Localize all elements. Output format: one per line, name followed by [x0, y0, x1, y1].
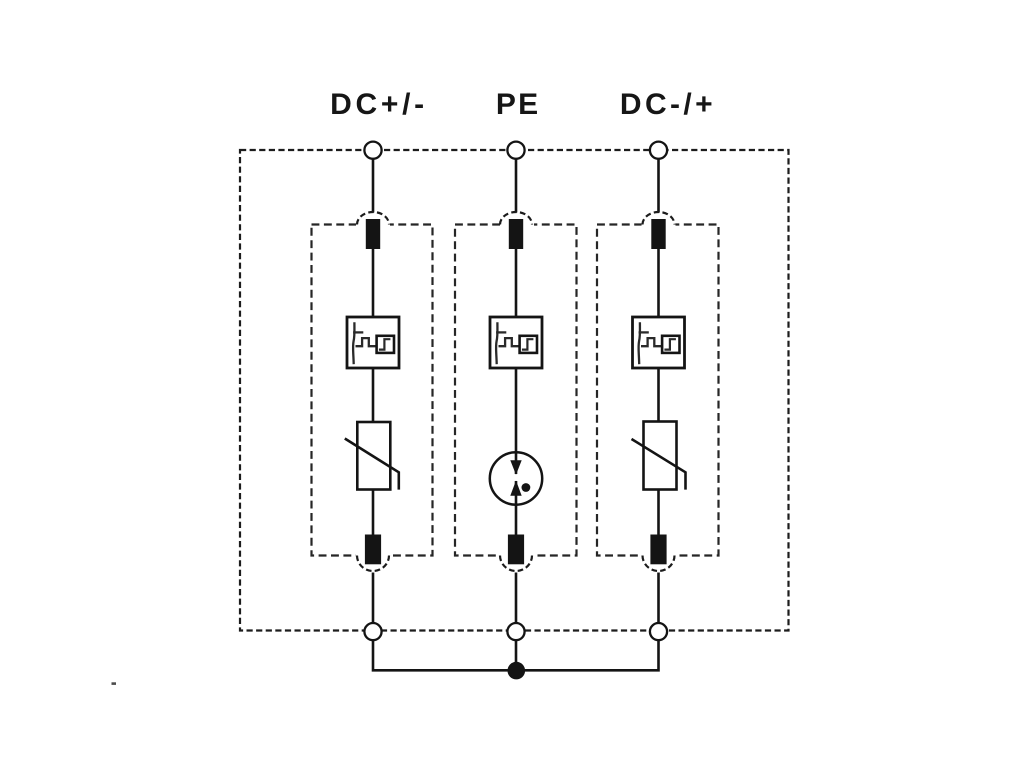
wire bottom bus right	[516, 640, 659, 671]
terminal DC+/- bottom	[364, 623, 381, 640]
outer dashed enclosure (device boundary)	[240, 150, 789, 631]
thermal disconnect fuse element bottom column3	[650, 535, 666, 565]
wire column3 mid1	[657, 249, 660, 317]
plug-in disconnect arc bottom column2	[500, 556, 532, 571]
status indicator box column2	[490, 317, 542, 368]
wire column1 top	[372, 159, 375, 213]
wire column1 bottom	[372, 573, 375, 624]
gas discharge tube (spark gap) column2	[490, 452, 542, 504]
wire column2 bottom	[515, 573, 518, 624]
junction node (common earth point)	[508, 662, 526, 680]
thermal disconnect fuse element bottom column2	[508, 535, 524, 565]
terminal DC-/+ top	[650, 142, 667, 159]
svg-text:PE: PE	[496, 88, 541, 121]
wire bottom bus left	[373, 640, 516, 671]
wire column1 mid3	[372, 490, 375, 535]
thermal disconnect fuse element bottom column1	[365, 535, 381, 565]
varistor column1	[345, 422, 399, 490]
wire PE drop to bus	[515, 640, 518, 671]
terminal DC+/- top	[364, 142, 381, 159]
wire column3 mid3	[657, 490, 660, 535]
wire column2 mid3	[515, 505, 518, 535]
plug-in disconnect arc top column2	[500, 212, 532, 225]
status indicator box column3	[633, 317, 685, 368]
status indicator box column1	[347, 317, 399, 368]
terminal DC-/+ bottom	[650, 623, 667, 640]
plug-in disconnect arc bottom column3	[643, 556, 675, 571]
wire column2 top	[515, 159, 518, 213]
wire column1 mid1	[372, 249, 375, 317]
inner dashed module box 2 (PE protection plug)	[455, 221, 577, 559]
svg-text:DC+/-: DC+/-	[330, 88, 428, 121]
plug-in disconnect arc top column3	[643, 212, 675, 225]
wire column3 top	[657, 159, 660, 213]
plug-in disconnect arc bottom column1	[357, 556, 389, 571]
terminal PE bottom	[507, 623, 524, 640]
thermal disconnect fuse element top column2	[509, 219, 523, 249]
plug-in disconnect arc top column1	[357, 212, 389, 225]
wire column2 mid2	[515, 368, 518, 462]
thermal disconnect fuse element top column1	[366, 219, 380, 249]
terminal PE top	[507, 142, 524, 159]
wire column2 mid1	[515, 249, 518, 317]
varistor column3	[632, 422, 686, 490]
wire column3 mid2	[657, 368, 660, 422]
wire column1 mid2	[372, 368, 375, 422]
stray scan mark	[112, 682, 117, 685]
wire column3 bottom	[657, 573, 660, 624]
svg-text:DC-/+: DC-/+	[620, 88, 716, 121]
inner dashed module box 1 (DC+/- protection plug)	[312, 221, 433, 559]
thermal disconnect fuse element top column3	[651, 219, 665, 249]
inner dashed module box 3 (DC-/+ protection plug)	[597, 221, 719, 559]
